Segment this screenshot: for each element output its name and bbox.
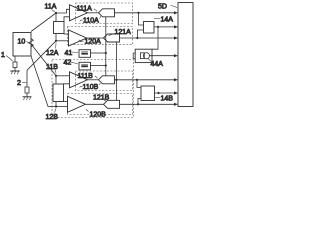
dashed box stage B2 [68, 94, 133, 115]
op-amp 111A [70, 5, 88, 21]
svg-text:11B: 11B [46, 64, 58, 71]
leader 110B [80, 83, 101, 88]
branch up to box 14B [138, 99, 141, 105]
pentagon 110A [99, 9, 115, 17]
wire node 11B down [55, 76, 57, 84]
node 12A [55, 40, 57, 42]
electrode 1 impedance box [13, 62, 17, 68]
output wire 110B to 5D [115, 79, 175, 81]
dashed box stage B1 [76, 71, 133, 91]
leader 5D [171, 6, 178, 8]
op-amp 111B [70, 72, 88, 88]
ground bar 1 [10, 70, 19, 72]
wire amp 120A to pentagon [87, 37, 104, 39]
arrow into 5D (B1) [174, 78, 178, 81]
wire node 12B to amp 120B [56, 106, 68, 108]
leader 121A [109, 34, 115, 36]
svg-text:42: 42 [64, 60, 72, 67]
wire box A to node 12A [55, 34, 57, 41]
box 14A [144, 22, 155, 34]
svg-text:12B: 12B [46, 114, 59, 120]
wire node 11B to amp [56, 75, 70, 77]
ground hatches 2 [23, 97, 30, 100]
arrow into 5D (B2) [174, 103, 178, 106]
wire diag to node 11B [31, 44, 56, 76]
box 14B [141, 86, 155, 101]
output wire 121B to 5D [120, 103, 175, 105]
symbol circle in box 44A [143, 53, 149, 59]
svg-text:44A: 44A [151, 61, 164, 68]
dashed box channel B [52, 60, 134, 118]
symbol in box 41 [81, 51, 88, 53]
svg-text:120B: 120B [90, 112, 107, 119]
leader 12A [55, 43, 58, 49]
wire box A to amp 120A [64, 33, 69, 36]
branch down to box 14A [139, 13, 144, 25]
leader 111A [94, 9, 97, 11]
wire amp 120B to pentagon [86, 103, 104, 105]
leader 14A [154, 18, 160, 20]
pentagon 110B [99, 76, 115, 84]
wire node 11A to amp [56, 9, 70, 13]
leader 120A [79, 40, 84, 42]
output wire 14A [154, 26, 175, 28]
amp 111A inverting wire [64, 17, 70, 22]
svg-text:10: 10 [18, 39, 26, 46]
leader 12B [55, 109, 57, 113]
svg-text:11A: 11A [45, 4, 57, 11]
wire amp 111B to pentagon [88, 79, 99, 81]
leader 110A [80, 16, 101, 21]
box 41 [79, 50, 91, 58]
svg-text:12A: 12A [46, 50, 59, 57]
leader 41 [72, 51, 79, 53]
leader 10 [27, 42, 31, 44]
arrow into 5D (14A) [174, 25, 178, 28]
wire pentagon 110A down (V1) [105, 17, 107, 76]
branch down to box 14B [137, 80, 141, 88]
electrode 1 wire [14, 56, 16, 62]
node V1 on ref wire [105, 52, 107, 54]
svg-text:14A: 14A [161, 17, 174, 24]
output wire 110A to 5D [115, 12, 175, 14]
box 42 [79, 62, 91, 70]
body box 10 [13, 33, 31, 57]
svg-text:5D: 5D [158, 4, 167, 11]
svg-text:41: 41 [65, 50, 73, 57]
svg-text:1: 1 [1, 52, 5, 59]
leader 121B [104, 100, 107, 102]
ref wire 42 [91, 65, 106, 67]
electrode 1 lower wire [14, 68, 16, 71]
wire diag box corner to node 12B [31, 56, 56, 107]
output wire 14B [155, 92, 175, 94]
svg-text:120A: 120A [85, 39, 102, 46]
ground bar 2 [23, 96, 32, 98]
pentagon 121A [104, 34, 120, 42]
leader 42 [71, 62, 78, 64]
box 5D [178, 3, 193, 107]
node on 110A line [137, 12, 139, 14]
node on 110B line [136, 79, 138, 81]
dashed box stage A1 [76, 3, 133, 24]
wire pentagon 121A down (V2) [116, 42, 118, 100]
node V2 cross on 110B line [115, 79, 117, 81]
node on 121B line [137, 103, 139, 105]
wire box B to amp 120B [64, 101, 68, 103]
leader 2 [22, 82, 27, 84]
source squiggle on box edge [29, 39, 34, 47]
symbol in box 42 [81, 63, 88, 65]
leader 14B [155, 97, 161, 99]
ground hatches 1 [11, 71, 18, 74]
pentagon 121B [104, 100, 120, 108]
leader 44A [148, 59, 152, 62]
ref wire 41 [91, 52, 106, 54]
electrode 2 impedance box [25, 87, 29, 93]
node on 14A output [157, 26, 159, 28]
svg-text:110B: 110B [83, 84, 99, 91]
feedback box A [54, 22, 65, 34]
arrow into 5D (14B) [174, 91, 178, 94]
box 44A [135, 49, 152, 62]
output wire 44A [150, 55, 175, 57]
svg-text:14B: 14B [161, 96, 174, 103]
op-amp 120B [68, 96, 86, 112]
symbol square in box 44A [140, 53, 144, 59]
leader 120B [86, 109, 89, 111]
leader 111B [95, 76, 98, 78]
wire node 11A down [55, 13, 57, 22]
node 11A [55, 12, 57, 14]
op-amp 120A [69, 30, 87, 46]
svg-text:111B: 111B [78, 73, 94, 80]
svg-text:110A: 110A [83, 18, 99, 25]
branch up to box 14A [137, 30, 143, 38]
arrow into 5D (A1) [174, 11, 178, 14]
electrode 2 wire [26, 70, 28, 87]
feedback box B [53, 84, 64, 102]
svg-text:111A: 111A [77, 6, 93, 13]
leader 11A [52, 10, 56, 13]
wire box B to node 12B [55, 102, 57, 107]
leader 1 [6, 56, 13, 62]
svg-text:2: 2 [17, 80, 21, 87]
amp 111B inverting wire [64, 83, 70, 85]
svg-text:121A: 121A [115, 29, 132, 36]
node 12B [55, 105, 57, 107]
node on 14B output [157, 92, 159, 94]
node on 121A line [136, 37, 138, 39]
output wire 121A to 5D [120, 37, 175, 39]
wire hook 14A node to box 44A [133, 27, 158, 59]
arrow into 5D (44A) [174, 54, 178, 57]
leader 11B [55, 70, 56, 74]
wire node 12A to amp 120A [56, 40, 69, 42]
arrow into 5D (A2) [174, 36, 178, 39]
wire amp 111A to pentagon [88, 12, 99, 14]
node 42/V2 [105, 64, 107, 66]
electrode 2 lower wire [26, 93, 28, 97]
wire diag to node 11A [31, 13, 56, 32]
dashed box stage A2 [68, 27, 133, 45]
wire diag electrode2 to node 12A [27, 41, 56, 71]
node 11B [55, 75, 57, 77]
